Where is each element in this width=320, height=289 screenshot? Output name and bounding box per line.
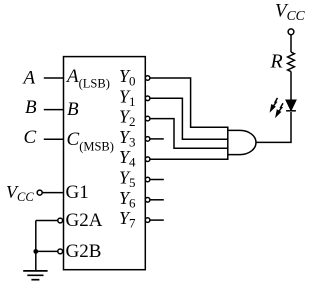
terminal VCC left open circle (37, 190, 42, 195)
wire stub Y6 (150, 199, 164, 201)
svg-text:A: A (22, 68, 36, 89)
LED D1 triangle and cathode bar (286, 100, 296, 111)
wire input B (44, 109, 64, 111)
svg-text:G2A: G2A (66, 210, 103, 231)
wire Y0 to gate (150, 78, 228, 127)
wire stub Y5 (150, 179, 164, 181)
svg-text:R: R (270, 51, 283, 73)
resistor R zigzag (288, 52, 295, 72)
pin bubble Y7 (145, 218, 150, 223)
wire Y4 to gate (150, 158, 228, 160)
svg-text:C: C (24, 127, 37, 148)
AND gate U2 (228, 127, 256, 161)
svg-text:G2B: G2B (66, 241, 102, 262)
pin bubble Y6 (145, 198, 150, 203)
wire input C (44, 138, 64, 140)
wire stub Y7 (150, 219, 164, 221)
wire Y1 to gate (150, 98, 228, 139)
LED light arrow 2 (276, 103, 283, 117)
wire junction to G2B (36, 250, 59, 252)
wire resistor to VCC terminal (290, 35, 292, 53)
terminal VCC right open circle (288, 29, 294, 35)
wire gate output to LED (256, 112, 291, 142)
ground symbol (23, 271, 47, 280)
wire VCC to G1 (42, 192, 63, 194)
svg-text:B: B (25, 97, 37, 118)
pin bubble G2A (58, 218, 63, 223)
pin bubble Y3 (145, 137, 150, 142)
svg-text:VCC: VCC (275, 1, 306, 23)
pin bubble Y0 (145, 76, 150, 81)
LED light arrow 1 (270, 98, 277, 112)
svg-text:G1: G1 (66, 182, 89, 203)
pin bubble Y1 (145, 96, 150, 101)
pin bubble Y2 (145, 116, 150, 121)
pin bubble Y4 (145, 157, 150, 162)
IC U1 74138 decoder body (64, 57, 146, 270)
wire vertical to ground (35, 221, 37, 271)
pin bubble Y5 (145, 177, 150, 182)
wire LED anode to resistor (290, 72, 292, 101)
wire to G2A (36, 220, 59, 222)
svg-text:B: B (67, 99, 79, 120)
wire input A (44, 77, 64, 79)
wire stub Y3 (150, 138, 164, 140)
wire Y2 to gate (150, 119, 228, 149)
junction dot node G2 (33, 249, 38, 254)
pin bubble G2B (58, 249, 63, 254)
svg-text:VCC: VCC (6, 182, 34, 204)
